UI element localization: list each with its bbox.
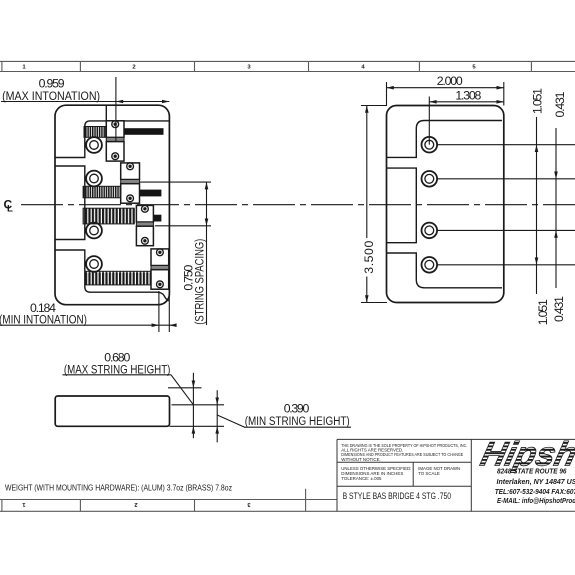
svg-text:(MAX INTONATION): (MAX INTONATION) — [2, 89, 100, 103]
svg-text:1.051: 1.051 — [536, 299, 550, 325]
svg-text:(STRING SPACING): (STRING SPACING) — [193, 239, 207, 325]
svg-text:0.431: 0.431 — [553, 91, 567, 117]
svg-text:(MIN STRING HEIGHT): (MIN STRING HEIGHT) — [245, 414, 350, 428]
svg-text:E-MAIL: info@HipshotProducts.c: E-MAIL: info@HipshotProducts.com — [497, 496, 575, 505]
svg-text:B STYLE BAS BRIDGE 4 STG .750: B STYLE BAS BRIDGE 4 STG .750 — [343, 491, 452, 501]
svg-text:WITHOUT NOTICE.: WITHOUT NOTICE. — [341, 457, 380, 462]
svg-text:TOLERANCE: ±.005: TOLERANCE: ±.005 — [341, 476, 382, 481]
svg-text:2.000: 2.000 — [437, 74, 463, 88]
svg-text:WEIGHT (WITH MOUNTING HARDWARE: WEIGHT (WITH MOUNTING HARDWARE): (ALUM) … — [5, 484, 232, 493]
svg-text:8248 STATE ROUTE 96: 8248 STATE ROUTE 96 — [497, 467, 567, 476]
svg-text:TO SCALE: TO SCALE — [418, 471, 440, 476]
svg-text:1.051: 1.051 — [531, 88, 545, 114]
svg-text:(MIN INTONATION): (MIN INTONATION) — [0, 313, 87, 327]
svg-text:L: L — [7, 204, 13, 215]
svg-text:(MAX STRING HEIGHT): (MAX STRING HEIGHT) — [64, 362, 170, 376]
svg-text:1.308: 1.308 — [455, 88, 481, 102]
svg-text:3.500: 3.500 — [362, 241, 376, 274]
svg-text:Interlaken, NY 14847 USA: Interlaken, NY 14847 USA — [497, 477, 575, 486]
svg-text:0.431: 0.431 — [552, 296, 566, 322]
svg-text:TEL:607-532-9404 FAX:607-532-9: TEL:607-532-9404 FAX:607-532-9405 — [495, 487, 575, 496]
